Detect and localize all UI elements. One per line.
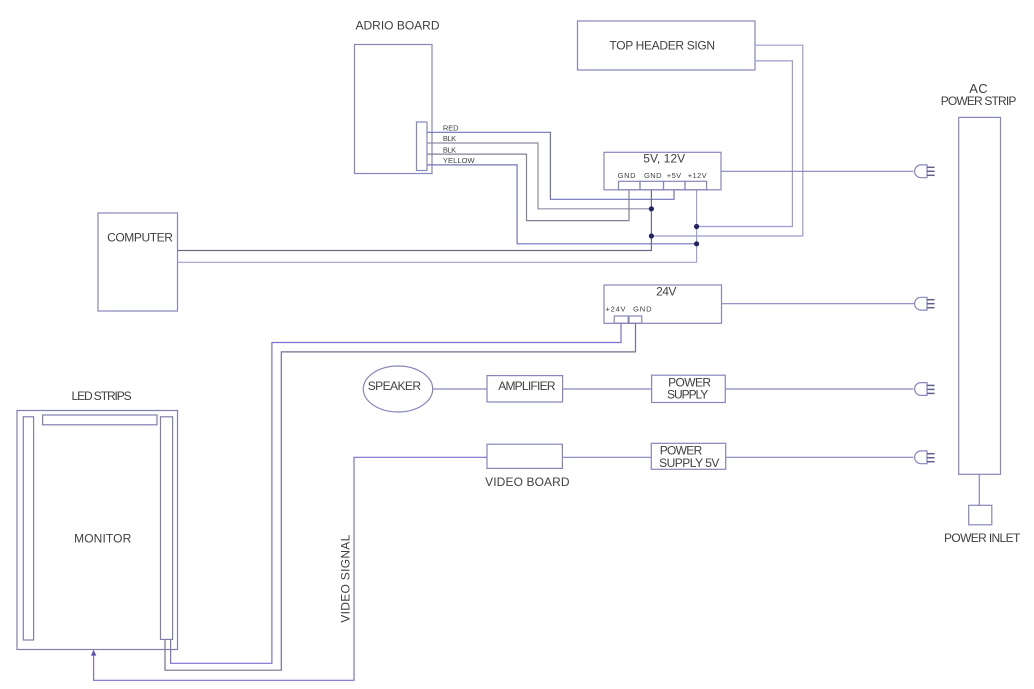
wire strip to power inlet <box>978 474 980 505</box>
junction dot 12V-header <box>694 224 699 229</box>
plug P4 <box>915 451 935 464</box>
svg-text:SPEAKER: SPEAKER <box>368 379 422 393</box>
wire computer to +12V net <box>178 190 697 262</box>
svg-text:BLK: BLK <box>443 145 456 154</box>
svg-text:VIDEO BOARD: VIDEO BOARD <box>485 475 570 489</box>
svg-text:POWER STRIP: POWER STRIP <box>941 94 1017 108</box>
wire header sign to +12V net <box>697 61 793 227</box>
svg-text:GND: GND <box>633 305 652 314</box>
video board box <box>487 444 562 468</box>
svg-text:GND: GND <box>618 171 636 180</box>
led strip left <box>23 417 33 640</box>
wire video signal <box>94 457 487 680</box>
computer box <box>98 213 178 311</box>
svg-text:COMPUTER: COMPUTER <box>107 230 173 244</box>
wire +24V to monitor led strip <box>171 323 621 663</box>
wire BLK2 <box>427 154 629 221</box>
wire 5V12V box to plug1 <box>721 170 913 172</box>
svg-text:LED STRIPS: LED STRIPS <box>72 389 132 403</box>
power supply 5V box <box>651 443 725 469</box>
junction dot GND-header <box>649 233 654 238</box>
svg-text:TOP HEADER SIGN: TOP HEADER SIGN <box>609 39 715 53</box>
wire power supply 5V to plug4 <box>726 456 914 458</box>
svg-text:ADRIO BOARD: ADRIO BOARD <box>356 18 440 32</box>
svg-text:GND: GND <box>644 171 662 180</box>
top header sign box <box>578 21 756 70</box>
wire RED <box>427 132 674 199</box>
terminal +12V <box>685 181 707 190</box>
svg-text:POWER INLET: POWER INLET <box>944 531 1021 545</box>
terminal +24V <box>614 316 628 323</box>
5V 12V supply box <box>604 152 721 190</box>
junction dot 12V-yellow <box>694 241 699 246</box>
wire power supply to plug3 <box>725 388 913 390</box>
plug P1 <box>915 165 935 178</box>
svg-text:5V, 12V: 5V, 12V <box>643 151 685 165</box>
wire YELLOW <box>427 165 697 244</box>
wire amplifier to power supply <box>563 388 652 390</box>
wire header sign to GND net <box>651 45 802 236</box>
svg-text:+12V: +12V <box>688 171 707 180</box>
junction dot GND-BLK <box>649 206 654 211</box>
speaker ellipse <box>363 366 432 412</box>
adrio board connector <box>417 122 428 171</box>
power inlet box <box>969 505 992 525</box>
24V supply box <box>604 285 722 323</box>
monitor box <box>17 411 178 650</box>
plug P3 <box>915 383 935 396</box>
svg-text:SUPPLY: SUPPLY <box>667 388 708 402</box>
power supply box <box>652 375 726 402</box>
adrio board box <box>355 45 433 174</box>
wire computer to GND net <box>178 190 652 251</box>
svg-text:+5V: +5V <box>667 171 681 180</box>
terminal GND1 <box>619 181 641 190</box>
ac power strip box <box>959 117 1001 474</box>
svg-text:+24V: +24V <box>606 305 626 314</box>
svg-text:YELLOW: YELLOW <box>443 156 476 165</box>
terminal GND2 <box>640 181 664 190</box>
wire BLK1 <box>427 143 651 209</box>
svg-text:AMPLIFIER: AMPLIFIER <box>498 379 556 393</box>
arrow into monitor <box>91 650 96 656</box>
amplifier box <box>487 376 563 402</box>
svg-text:SUPPLY 5V: SUPPLY 5V <box>659 456 719 470</box>
terminal 24V GND <box>629 316 642 323</box>
svg-text:BLK: BLK <box>443 134 456 143</box>
svg-text:RED: RED <box>443 124 459 133</box>
wire 24V GND to monitor led strip <box>165 323 636 670</box>
svg-text:MONITOR: MONITOR <box>74 531 132 545</box>
terminal +5V <box>664 181 686 190</box>
svg-text:24V: 24V <box>656 285 676 299</box>
wire video board to power supply 5V <box>562 456 651 458</box>
wire 24V box to plug2 <box>722 303 915 305</box>
led strip top <box>43 415 157 425</box>
wire speaker to amplifier <box>433 388 487 390</box>
plug P2 <box>915 297 935 310</box>
led strip right <box>161 417 173 640</box>
svg-text:VIDEO SIGNAL: VIDEO SIGNAL <box>338 534 352 622</box>
